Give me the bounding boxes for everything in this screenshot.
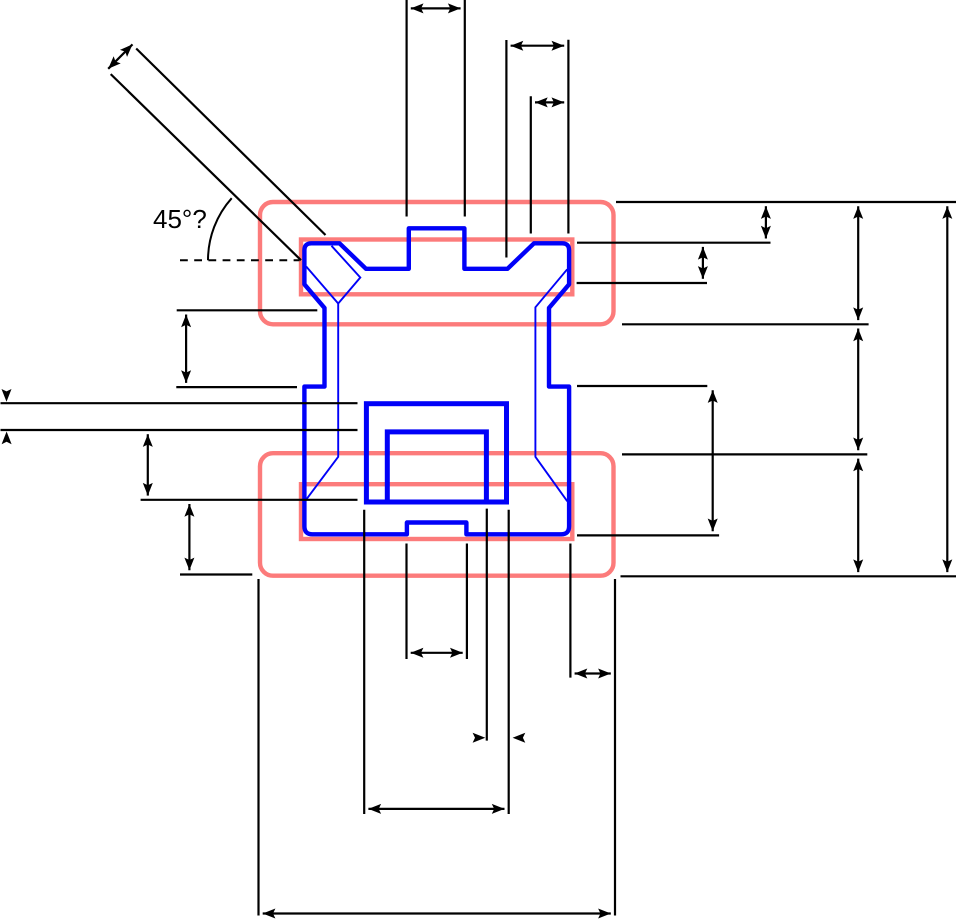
ext line box left outer	[363, 510, 365, 814]
dim red1 bottom to red2 top	[857, 329, 859, 451]
blue inner thin contour right	[535, 269, 567, 501]
shoulder width dim	[511, 45, 565, 47]
ext line right leg	[569, 544, 571, 678]
svg-text:45°?: 45°?	[153, 204, 207, 234]
ref line red top right	[616, 201, 956, 203]
blue profile outer contour	[304, 228, 569, 534]
outside arrow below inner box top line	[2, 432, 12, 445]
dim notch width	[411, 652, 463, 654]
dim step to bottom right	[712, 390, 714, 531]
left leg height dim	[185, 315, 187, 383]
ref line inner box top	[1, 429, 358, 431]
ref line thin junction left	[141, 499, 358, 501]
dim red2 height	[857, 459, 859, 572]
box offset dim	[147, 434, 149, 495]
ref line bend left	[177, 309, 318, 311]
ref line blue bend right	[577, 282, 707, 284]
ext line red right	[614, 579, 616, 916]
red clearance zone outer top	[260, 202, 614, 324]
outside arrow box wall left	[473, 733, 486, 743]
chamfer width dim	[535, 101, 564, 103]
ref line blue bottom right	[577, 534, 719, 536]
ref line red bottom right1	[622, 323, 869, 325]
ext line right edge top	[567, 40, 569, 234]
dim overall height	[946, 206, 948, 572]
ref line red bottom left	[180, 573, 252, 575]
ext line chamfer top	[530, 96, 532, 233]
ext line inner box right	[486, 509, 488, 741]
blue inner thin spur left	[306, 267, 338, 304]
dim blue top to bend	[702, 247, 704, 279]
ref line step right	[577, 385, 707, 387]
chamfer dim arrow	[108, 44, 132, 68]
dim red1 height	[857, 206, 859, 320]
outside arrow above box top line	[2, 389, 12, 402]
dim red top to blue top	[765, 206, 767, 238]
ref line red2 bottom right	[621, 575, 956, 577]
ext line notch right	[466, 544, 468, 660]
chamfer dim line upper	[136, 49, 325, 236]
ref line blue top right	[577, 242, 771, 244]
ext line box right outer	[508, 510, 510, 814]
red clearance zone inner bottom	[301, 484, 572, 539]
ref line step left	[176, 386, 297, 388]
red clearance zone inner top	[301, 240, 572, 295]
dim red width overall	[263, 912, 611, 914]
blue center box inner	[387, 432, 486, 502]
ext line tab right	[464, 0, 466, 217]
chamfer dim line lower	[111, 74, 301, 260]
blue inner thin contour left	[306, 246, 360, 500]
junction to red bottom dim	[188, 504, 190, 570]
blue center box outer	[366, 404, 506, 502]
ext line tab left	[406, 0, 408, 217]
dim box width	[368, 808, 504, 810]
ref line red2 top right	[622, 453, 867, 455]
ext line notch left	[405, 544, 407, 660]
ext line shelf right end	[505, 40, 507, 258]
ref line box top	[1, 402, 358, 404]
ext line red left	[257, 579, 259, 916]
dashed datum line	[180, 259, 300, 261]
dim leg to red edge	[575, 672, 611, 674]
angle arc	[208, 198, 232, 260]
tab width dim	[411, 7, 461, 9]
outside arrow box wall right	[513, 733, 526, 743]
red clearance zone outer bottom	[260, 453, 614, 576]
